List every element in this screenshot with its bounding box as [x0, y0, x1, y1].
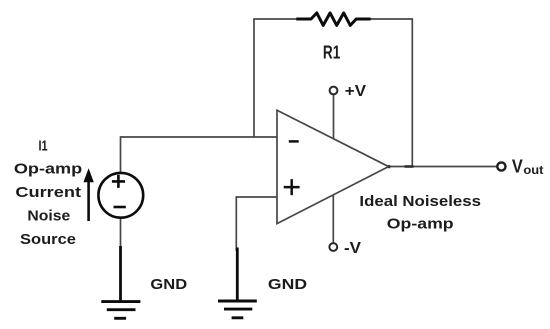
- wire feedback top left segment: [253, 18, 297, 20]
- wire non-inverting input vertical to ground: [235, 196, 237, 251]
- wire current source top stub: [120, 136, 122, 173]
- op-amp U1: [277, 110, 389, 223]
- label +V: [345, 83, 367, 100]
- resistor R1: [296, 13, 370, 26]
- current source arrow: [83, 168, 93, 221]
- svg-text:Op-amp: Op-amp: [14, 161, 82, 178]
- wire inverting input horizontal: [121, 136, 278, 138]
- wire non-inverting input horizontal: [236, 196, 277, 198]
- current source plus symbol: [112, 175, 125, 188]
- svg-text:Ideal Noiseless: Ideal Noiseless: [359, 193, 481, 210]
- op-amp non-inverting input plus symbol: [284, 179, 300, 195]
- svg-text:Op-amp: Op-amp: [387, 215, 454, 232]
- svg-text:V: V: [512, 156, 523, 177]
- label R1: [323, 43, 340, 63]
- wire +V supply stub: [333, 95, 335, 140]
- svg-text:GND: GND: [268, 276, 307, 293]
- svg-text:Noise: Noise: [27, 208, 70, 225]
- label Ideal Noiseless Op-amp: [359, 193, 481, 233]
- junction at feedback and output node: [387, 165, 413, 168]
- terminal -V: [329, 243, 337, 251]
- svg-text:GND: GND: [150, 276, 187, 293]
- wire current source bottom stub: [120, 218, 122, 250]
- wire feedback right vertical: [411, 19, 413, 167]
- current source I1: [98, 173, 143, 218]
- label I1 current noise source (5 lines): [14, 137, 82, 248]
- label GND (left ground): [150, 276, 187, 293]
- terminal Vout: [497, 162, 505, 170]
- label GND (middle ground): [268, 276, 307, 293]
- label -V: [344, 240, 361, 257]
- wire -V supply stub: [332, 194, 334, 244]
- svg-text:I1: I1: [38, 137, 47, 154]
- svg-text:out: out: [523, 165, 543, 177]
- svg-text:Current: Current: [15, 184, 81, 201]
- op-amp inverting input minus symbol: [289, 140, 299, 143]
- svg-text:+V: +V: [345, 83, 367, 100]
- ground symbol 2: [218, 248, 257, 318]
- svg-text:Source: Source: [20, 231, 76, 248]
- current source minus symbol: [114, 206, 126, 209]
- ground symbol 1: [101, 246, 140, 318]
- svg-text:-V: -V: [344, 240, 361, 257]
- wire feedback left vertical: [253, 19, 255, 137]
- wire feedback top right segment: [370, 18, 413, 20]
- label Vout: [512, 156, 544, 177]
- wire output: [389, 166, 498, 168]
- svg-text:R1: R1: [323, 43, 340, 63]
- terminal +V: [330, 87, 338, 95]
